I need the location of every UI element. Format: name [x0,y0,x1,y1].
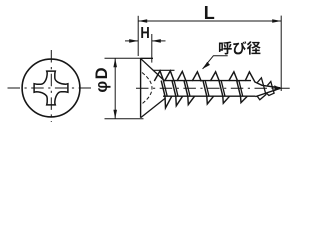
hidden recess arc (dashed) [142,73,152,104]
svg-text:L: L [204,3,215,23]
leader arrowhead [203,62,210,69]
taper thread tooth 1 [257,78,263,86]
thread crest 1 (bottom) with flank [161,81,172,108]
H dimension line left [125,40,138,42]
thread crest 2 (bottom) with flank [172,81,183,106]
crest envelope line [154,69,175,71]
label yobikei (nominal dia) [219,41,261,54]
thread crest 6 (top) [229,72,238,82]
centerline horizontal (plan) [8,87,92,89]
thread crest 3 (top) [177,71,186,81]
svg-text:φD: φD [93,66,111,93]
thread crest 4 (bottom) with flank [203,81,214,104]
screw point [274,85,280,91]
phiD extension line top [105,57,154,59]
thread flank line 1 [163,81,167,97]
thread crest 1 (top) [154,71,164,82]
label phiD (head diameter, rotated) [93,66,111,93]
labels [93,3,261,93]
side view axis centerline [136,87,290,89]
L dimension extension line left [137,16,139,56]
H dimension line right [152,40,166,42]
phiD arrow bottom [113,110,117,119]
L dimension line [138,20,281,22]
H dimension extension line right [151,34,153,63]
cone bottom edge [141,98,166,118]
thread flank line 3 [186,81,190,97]
phiD extension line bottom [105,118,144,120]
thread flank line 6 [239,81,243,97]
thread crest 3 (bottom) with flank [184,81,195,105]
thread flank line 2 [174,81,178,97]
cone top edge [141,59,164,81]
phiD arrow top [113,58,117,67]
H arrow left [129,39,138,43]
thread crest 5 (top) [210,72,219,82]
thread crest 2 (top) [165,71,175,82]
phillips recess cross [34,71,68,105]
svg-text:H: H [140,25,149,42]
phiD dimension line [114,58,116,118]
head side: top edge [141,57,153,59]
taper thread tooth 2 [267,82,272,89]
thread flank line 4 [205,81,209,97]
L arrow left [138,19,147,23]
taper thread zigzag 2 [266,89,274,96]
thread crest 4 (top) [192,72,201,82]
thread root line bottom [163,95,256,97]
leader line (yobi-kei) [203,56,228,69]
centerline vertical (plan) [50,50,52,122]
L arrow right [272,19,281,23]
thread crest 7 (top) and taper top line [245,72,280,88]
head plan view circle [22,59,80,117]
thread crest 5 (bottom) with flank [219,81,230,104]
H arrow right [152,39,161,43]
thread crest 6 (bottom) with flank [237,81,248,103]
thread flank line 5 [221,81,225,97]
thread root line top [164,80,252,82]
tip taper bottom line [256,88,281,96]
taper thread zigzag 1 [257,86,266,100]
L dimension extension line right [280,16,282,91]
head side: face [140,58,142,117]
